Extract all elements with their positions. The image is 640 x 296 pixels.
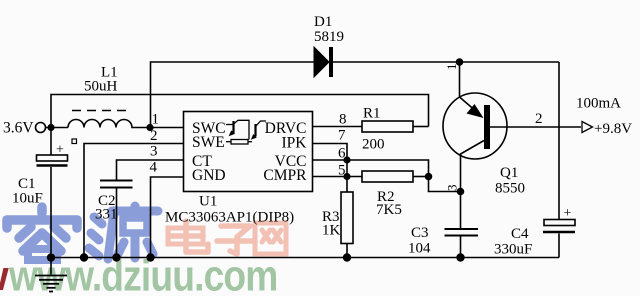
svg-text:U1: U1 — [199, 194, 217, 210]
svg-text:2: 2 — [150, 128, 158, 144]
svg-text:50uH: 50uH — [84, 79, 118, 95]
svg-text:5: 5 — [338, 163, 346, 179]
svg-text:3: 3 — [445, 185, 460, 192]
svg-text:Q1: Q1 — [500, 165, 518, 181]
svg-text:6: 6 — [338, 146, 346, 162]
svg-text:331: 331 — [95, 207, 118, 223]
svg-text:3: 3 — [150, 144, 158, 160]
svg-text:C4: C4 — [511, 226, 529, 242]
svg-text:10uF: 10uF — [12, 191, 43, 207]
svg-text:100mA: 100mA — [576, 96, 621, 112]
svg-text:8550: 8550 — [495, 181, 525, 197]
svg-text:1: 1 — [444, 64, 459, 71]
svg-text:8: 8 — [339, 112, 347, 128]
svg-text:2: 2 — [535, 111, 543, 127]
svg-text:104: 104 — [408, 241, 431, 257]
svg-text:1K: 1K — [322, 223, 341, 239]
svg-text:330uF: 330uF — [494, 242, 532, 258]
svg-text:C3: C3 — [411, 225, 429, 241]
svg-text:GND: GND — [192, 167, 226, 184]
svg-text:+: + — [564, 206, 572, 221]
svg-text:7: 7 — [338, 128, 346, 144]
svg-text:w: w — [0, 252, 9, 296]
svg-text:IPK: IPK — [282, 135, 308, 152]
svg-text:CMPR: CMPR — [263, 167, 307, 184]
svg-text:4: 4 — [150, 160, 158, 176]
svg-text:D1: D1 — [314, 14, 332, 30]
svg-text:5819: 5819 — [314, 29, 344, 45]
svg-text:+9.8V: +9.8V — [594, 121, 632, 137]
svg-text:7K5: 7K5 — [376, 202, 402, 218]
svg-text:R1: R1 — [363, 106, 381, 122]
svg-text:MC33063AP1(DIP8): MC33063AP1(DIP8) — [165, 210, 294, 226]
svg-text:+: + — [56, 143, 64, 158]
svg-text:3.6V: 3.6V — [3, 120, 34, 137]
svg-text:1: 1 — [152, 112, 160, 128]
svg-text:SWE: SWE — [192, 134, 225, 151]
svg-text:200: 200 — [362, 137, 385, 153]
